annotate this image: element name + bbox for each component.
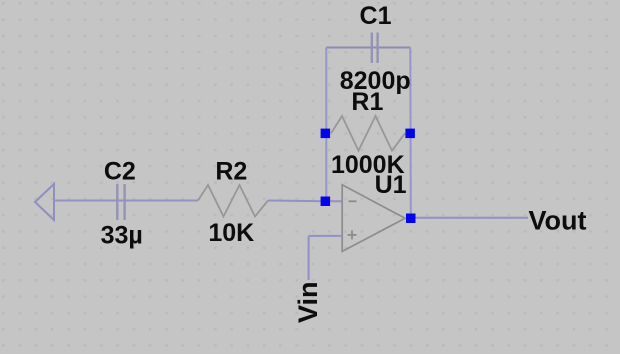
capacitor C1 [372,33,378,64]
wire Vin vertical [308,236,310,280]
svg-text:33µ: 33µ [101,222,143,250]
wire node to op-amp [325,200,342,202]
svg-text:C2: C2 [104,157,136,185]
wire feedback right vertical [409,48,412,219]
op-amp U1 [342,185,405,252]
junction square inverting input [321,197,331,207]
svg-text:C1: C1 [360,2,392,30]
junction square R1 right [405,129,415,139]
svg-text:R1: R1 [351,88,383,116]
wire non-inverting horizontal [309,235,343,237]
wire feedback left vertical [325,48,327,202]
junction square output [406,214,416,224]
svg-text:Vout: Vout [529,205,587,235]
wire input port to C2 [53,200,198,202]
capacitor C2 [117,184,124,220]
resistor R1 [331,116,405,151]
junction square R1 left [321,129,331,139]
wire R2 to inverting node [268,200,325,203]
input port symbol [35,184,54,220]
svg-text:Vin: Vin [293,281,323,323]
wire output [416,217,529,219]
svg-text:U1: U1 [375,171,407,199]
svg-text:R2: R2 [215,157,247,185]
wire feedback top left [326,47,410,49]
resistor R2 [198,185,268,217]
svg-text:10K: 10K [208,219,254,247]
